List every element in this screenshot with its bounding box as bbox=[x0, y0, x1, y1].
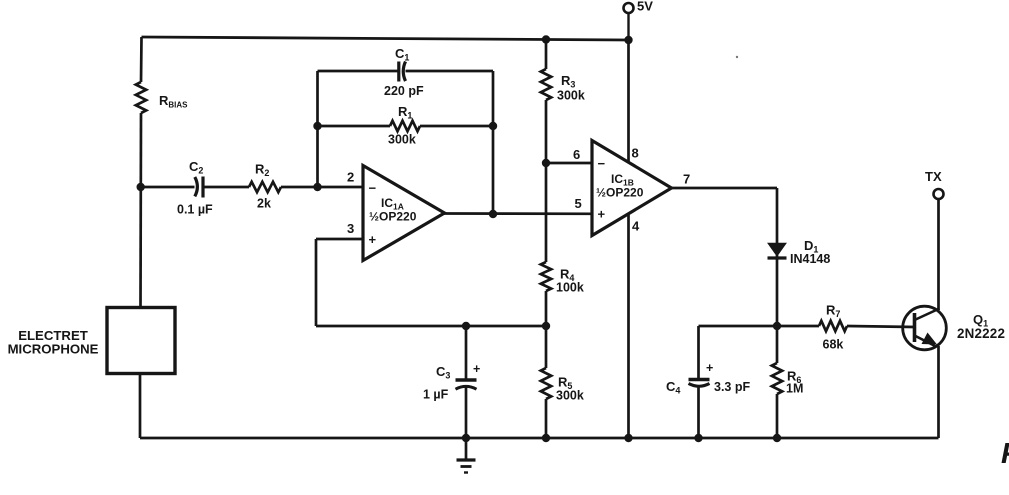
svg-text:220 pF: 220 pF bbox=[384, 84, 424, 98]
svg-text:MICROPHONE: MICROPHONE bbox=[8, 342, 99, 357]
svg-text:3.3 pF: 3.3 pF bbox=[714, 380, 750, 394]
svg-text:½OP220: ½OP220 bbox=[369, 210, 417, 224]
svg-text:0.1 µF: 0.1 µF bbox=[177, 203, 213, 217]
svg-text:TX: TX bbox=[925, 169, 942, 184]
svg-text:+: + bbox=[369, 232, 377, 247]
svg-text:5: 5 bbox=[575, 196, 582, 211]
svg-text:2N2222: 2N2222 bbox=[957, 326, 1005, 341]
svg-text:300k: 300k bbox=[556, 389, 584, 403]
svg-text:8: 8 bbox=[632, 146, 639, 161]
svg-text:5V: 5V bbox=[637, 0, 653, 14]
svg-text:4: 4 bbox=[632, 219, 640, 234]
svg-text:300k: 300k bbox=[388, 133, 416, 147]
svg-text:7: 7 bbox=[683, 172, 690, 187]
svg-text:−: − bbox=[598, 156, 606, 171]
svg-text:1 µF: 1 µF bbox=[423, 388, 449, 402]
svg-text:1M: 1M bbox=[786, 382, 803, 396]
svg-text:IN4148: IN4148 bbox=[790, 252, 830, 266]
svg-text:3: 3 bbox=[347, 221, 354, 236]
svg-text:+: + bbox=[706, 361, 713, 375]
svg-text:F: F bbox=[1001, 438, 1009, 470]
svg-text:100k: 100k bbox=[556, 281, 584, 295]
svg-text:+: + bbox=[598, 207, 606, 222]
svg-text:6: 6 bbox=[573, 147, 580, 162]
svg-text:2k: 2k bbox=[257, 197, 271, 211]
svg-text:½OP220: ½OP220 bbox=[596, 186, 644, 200]
svg-text:68k: 68k bbox=[823, 338, 844, 352]
svg-text:300k: 300k bbox=[557, 89, 585, 103]
svg-text:2: 2 bbox=[347, 170, 354, 185]
svg-text:−: − bbox=[369, 181, 377, 196]
svg-text:+: + bbox=[473, 362, 480, 376]
